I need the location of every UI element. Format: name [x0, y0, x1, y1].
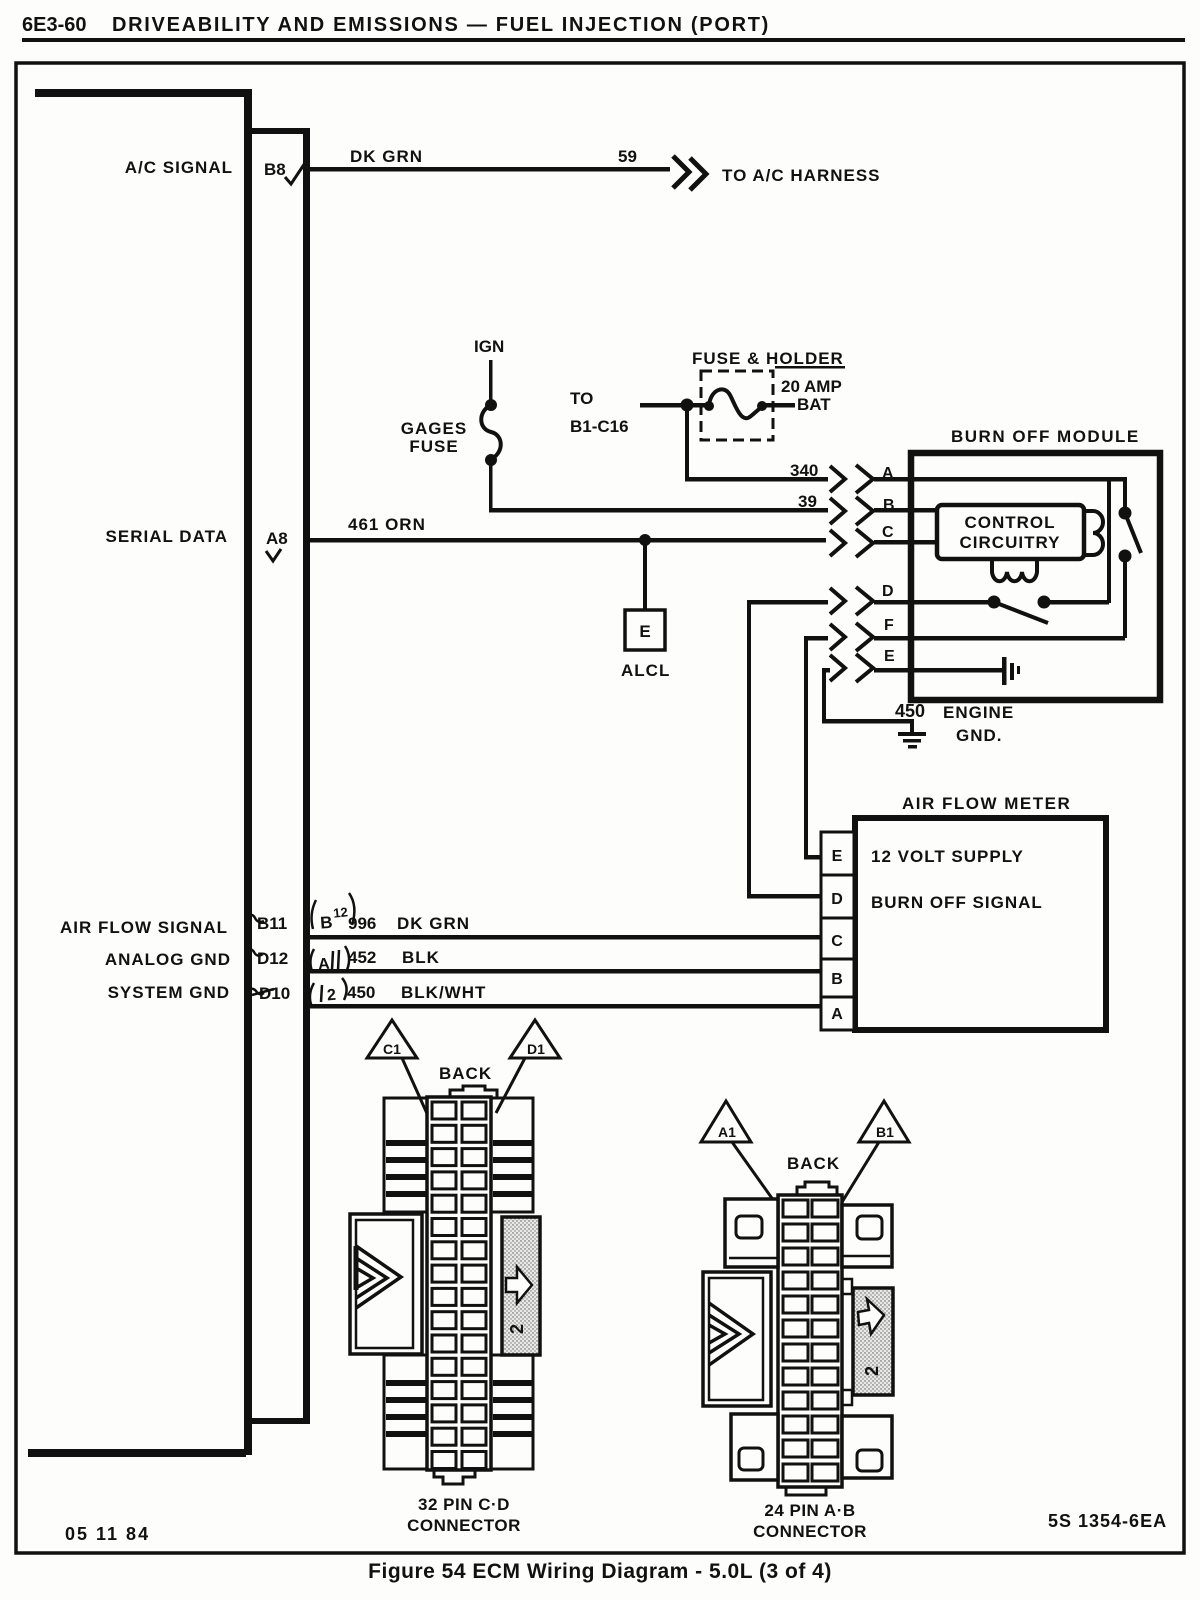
check mark at A8: [266, 549, 281, 561]
svg-text:IGN: IGN: [474, 337, 504, 356]
connector pin B chevrons: [830, 497, 873, 525]
svg-text:D: D: [882, 583, 894, 600]
label AIR FLOW METER: [902, 794, 1071, 813]
pin label F: [884, 617, 894, 634]
svg-text:C: C: [882, 524, 894, 541]
svg-text:BURN OFF SIGNAL: BURN OFF SIGNAL: [871, 893, 1043, 912]
wire label 39: [798, 492, 817, 511]
svg-text:2: 2: [327, 987, 337, 1005]
connector pin A chevrons: [830, 465, 873, 493]
burn off module box: [911, 453, 1160, 700]
svg-text:CIRCUITRY: CIRCUITRY: [960, 533, 1061, 552]
wire pin A inside module: [874, 477, 1127, 512]
svg-text:59: 59: [618, 147, 637, 166]
label A/C SIGNAL: [125, 158, 233, 177]
label ALCL: [621, 661, 670, 680]
wire junction down to pin A (ckt 340): [685, 405, 828, 482]
wire B11 air flow signal (996 DK GRN): [310, 935, 821, 940]
pin B8: [264, 160, 286, 179]
label BACK (32 pin): [439, 1064, 492, 1083]
label SERIAL DATA: [106, 527, 228, 546]
svg-text:461 ORN: 461 ORN: [348, 515, 426, 534]
leader A1 to connector: [732, 1142, 786, 1218]
wire label 450 BLK/WHT: [347, 983, 486, 1002]
wire label 452 BLK: [348, 948, 440, 967]
label BURN OFF MODULE: [951, 427, 1140, 446]
wire upper switch to pin F: [874, 556, 1127, 641]
pin label C: [882, 524, 894, 541]
svg-text:CONTROL: CONTROL: [964, 513, 1055, 532]
svg-text:D12: D12: [257, 949, 288, 968]
relay coil right of control circuitry: [1084, 511, 1103, 555]
label 20 AMP BAT: [781, 377, 842, 414]
svg-text:E: E: [832, 848, 843, 865]
32 pin connector pin cells: [432, 1102, 486, 1469]
svg-text:D1: D1: [527, 1041, 545, 1057]
relay coil below control circuitry: [992, 559, 1037, 581]
svg-text:FUSE & HOLDER: FUSE & HOLDER: [692, 349, 844, 368]
svg-text:F: F: [884, 617, 894, 634]
label BURN OFF SIGNAL: [871, 893, 1043, 912]
svg-text:BLK: BLK: [402, 948, 440, 967]
pin label D: [882, 583, 894, 600]
svg-text:32 PIN C·D: 32 PIN C·D: [418, 1495, 510, 1514]
24 pin connector top-left wing: [725, 1199, 778, 1267]
air flow meter pin E cell: [821, 832, 854, 875]
svg-text:12: 12: [333, 904, 349, 920]
svg-text:TO: TO: [570, 389, 593, 408]
svg-text:GND.: GND.: [956, 726, 1003, 745]
check squiggle at D10: [246, 989, 264, 994]
node battery feed junction: [681, 399, 694, 412]
svg-text:A: A: [831, 1006, 843, 1023]
wire pin E to engine ground: [822, 668, 914, 724]
relay switch upper: [1119, 507, 1142, 563]
svg-text:GAGES: GAGES: [401, 419, 467, 438]
svg-text:BACK: BACK: [787, 1154, 840, 1173]
24 pin connector body: [778, 1182, 842, 1495]
32 pin connector top-right wing: [491, 1098, 533, 1212]
node C1 callout triangle: [367, 1020, 417, 1058]
32 pin connector bottom-left wing: [384, 1355, 427, 1469]
svg-text:BURN OFF MODULE: BURN OFF MODULE: [951, 427, 1140, 446]
label 24 PIN A-B CONNECTOR: [753, 1501, 867, 1541]
fuse 20 AMP: [704, 389, 767, 418]
connector pin E chevrons: [830, 654, 873, 682]
wire module pin F to air flow meter pin E: [804, 636, 828, 860]
figure caption: [368, 1560, 832, 1583]
pin label E: [884, 648, 895, 665]
svg-text:B11: B11: [257, 914, 287, 933]
svg-text:CONNECTOR: CONNECTOR: [753, 1522, 867, 1541]
svg-text:DK GRN: DK GRN: [397, 914, 470, 933]
32 pin connector bottom-right wing: [491, 1355, 533, 1469]
24 pin connector bottom-right wing: [842, 1416, 892, 1478]
svg-text:B: B: [320, 913, 334, 933]
svg-text:B1-C16: B1-C16: [570, 417, 629, 436]
wire label 340: [790, 461, 818, 480]
check squiggle at D12: [245, 949, 263, 955]
wire D10 system gnd (450 BLK/WHT): [310, 1004, 821, 1009]
fuse GAGES FUSE: [481, 399, 501, 466]
wire label DK GRN: [350, 147, 423, 166]
svg-text:05 11 84: 05 11 84: [65, 1524, 150, 1544]
leader B1 to connector: [839, 1142, 879, 1207]
wire label 450: [895, 701, 925, 721]
svg-text:BLK/WHT: BLK/WHT: [401, 983, 486, 1002]
svg-text:ENGINE: ENGINE: [943, 703, 1014, 722]
air flow meter pin B cell: [821, 959, 854, 997]
connector pin C chevrons: [830, 529, 873, 557]
label ENGINE GND.: [943, 703, 1014, 745]
page header title: [22, 14, 1185, 42]
svg-text:SYSTEM GND: SYSTEM GND: [108, 983, 230, 1002]
svg-text:BACK: BACK: [439, 1064, 492, 1083]
svg-text:B8: B8: [264, 160, 286, 179]
node serial data junction: [639, 534, 651, 546]
wire pin C into control circuitry: [874, 540, 938, 545]
check mark at B8: [285, 163, 305, 184]
control circuitry box U1: [937, 505, 1084, 559]
handwritten (B12): [312, 893, 355, 933]
pin D12: [257, 949, 288, 968]
pin label A: [882, 465, 894, 482]
wire pin E to chassis ground: [874, 668, 1004, 673]
engine ground symbol: [898, 723, 926, 749]
svg-text:E: E: [639, 622, 650, 641]
fuse holder dashed box: [701, 371, 773, 440]
svg-text:B1: B1: [876, 1124, 894, 1140]
air flow meter box: [855, 818, 1106, 1030]
svg-text:2: 2: [862, 1366, 882, 1376]
ECM connector strip: [250, 128, 310, 1424]
node A1 callout triangle: [701, 1101, 751, 1142]
pin B11: [257, 914, 287, 933]
32 pin connector left latch block: [350, 1214, 422, 1354]
wire IGN to gages fuse: [489, 360, 493, 402]
connector E ALCL: [625, 610, 665, 650]
svg-text:FUSE: FUSE: [409, 437, 458, 456]
wire B8 to A/C harness (DK GRN 59): [310, 167, 670, 172]
svg-text:BAT: BAT: [797, 395, 831, 414]
svg-text:B: B: [831, 971, 843, 988]
svg-text:452: 452: [348, 948, 376, 967]
svg-text:996: 996: [348, 914, 376, 933]
label FUSE & HOLDER: [692, 349, 845, 369]
label ANALOG GND: [105, 950, 231, 969]
32 pin connector top-left wing: [384, 1098, 427, 1212]
svg-text:E: E: [884, 648, 895, 665]
svg-text:20 AMP: 20 AMP: [781, 377, 842, 396]
air flow meter pin C cell: [821, 918, 854, 959]
check squiggle at B11: [247, 915, 264, 922]
label 32 PIN C-D CONNECTOR: [407, 1495, 521, 1535]
double chevron arrow to A/C harness: [673, 156, 706, 190]
handwritten (A11): [310, 946, 349, 973]
handwritten (12): [310, 978, 347, 1007]
wire pin B into control circuitry: [874, 508, 938, 513]
pin A8: [266, 529, 288, 548]
label SYSTEM GND: [108, 983, 230, 1002]
label BACK (24 pin): [787, 1154, 840, 1173]
svg-text:C1: C1: [383, 1041, 401, 1057]
svg-text:A1: A1: [718, 1124, 736, 1140]
pin label B: [883, 497, 895, 514]
32 pin connector body: [427, 1086, 497, 1484]
wire module pin D to air flow meter pin D: [747, 600, 828, 899]
wire gages fuse to pin B (ckt 39): [489, 464, 828, 513]
24 pin connector left latch block: [703, 1272, 771, 1406]
wire label 59: [618, 147, 637, 166]
label IGN: [474, 337, 504, 356]
svg-text:6E3-60: 6E3-60: [22, 14, 87, 36]
svg-text:D: D: [831, 891, 843, 908]
svg-text:DRIVEABILITY AND EMISSIONS — F: DRIVEABILITY AND EMISSIONS — FUEL INJECT…: [112, 14, 770, 36]
leader C1 to connector: [402, 1058, 429, 1118]
svg-text:5S 1354-6EA: 5S 1354-6EA: [1048, 1511, 1167, 1531]
svg-text:340: 340: [790, 461, 818, 480]
svg-text:24 PIN A·B: 24 PIN A·B: [764, 1501, 855, 1520]
svg-text:C: C: [831, 933, 843, 950]
24 pin connector right lock block with arrow: [842, 1279, 893, 1405]
connector pin F chevrons: [830, 623, 873, 651]
svg-text:12 VOLT SUPPLY: 12 VOLT SUPPLY: [871, 847, 1024, 866]
svg-text:ANALOG GND: ANALOG GND: [105, 950, 231, 969]
wire serial data 461 ORN: [310, 538, 826, 543]
air flow meter pin A cell: [821, 997, 854, 1030]
svg-text:AIR FLOW METER: AIR FLOW METER: [902, 794, 1071, 813]
24 pin connector pin cells: [783, 1200, 838, 1481]
wire junction to ALCL: [643, 540, 647, 610]
label GAGES FUSE: [401, 419, 467, 456]
svg-text:CONNECTOR: CONNECTOR: [407, 1516, 521, 1535]
ECM body outline: [28, 89, 252, 1457]
svg-text:A/C SIGNAL: A/C SIGNAL: [125, 158, 233, 177]
svg-text:450: 450: [895, 701, 925, 721]
connector pin D chevrons: [830, 587, 873, 615]
svg-text:39: 39: [798, 492, 817, 511]
node B1 callout triangle: [859, 1101, 909, 1142]
svg-text:TO A/C HARNESS: TO A/C HARNESS: [722, 166, 881, 185]
label TO A/C HARNESS: [722, 166, 881, 185]
svg-text:ALCL: ALCL: [621, 661, 670, 680]
chassis ground inside module: [1002, 657, 1020, 685]
svg-text:SERIAL DATA: SERIAL DATA: [106, 527, 228, 546]
svg-text:DK GRN: DK GRN: [350, 147, 423, 166]
drawing number 5S 1354-6EA: [1048, 1511, 1167, 1531]
24 pin connector top-right wing: [842, 1205, 892, 1267]
air flow meter pin D cell: [821, 875, 854, 918]
label TO B1-C16: [570, 389, 629, 436]
wire battery feed to fuse holder: [640, 403, 795, 408]
svg-text:2: 2: [507, 1324, 527, 1334]
date stamp 05 11 84: [65, 1524, 150, 1544]
leader D1 to connector: [496, 1058, 525, 1113]
relay switch lower in pin D line: [874, 479, 1111, 623]
wire D12 analog gnd (452 BLK): [310, 969, 821, 974]
svg-text:A8: A8: [266, 529, 288, 548]
wire label 461 ORN: [348, 515, 426, 534]
label AIR FLOW SIGNAL: [60, 918, 228, 937]
wire label 996 DK GRN: [348, 914, 470, 933]
svg-text:AIR FLOW SIGNAL: AIR FLOW SIGNAL: [60, 918, 228, 937]
svg-text:450: 450: [347, 983, 375, 1002]
node D1 callout triangle: [510, 1020, 560, 1058]
svg-text:Figure 54 ECM Wiring Diagram -: Figure 54 ECM Wiring Diagram - 5.0L (3 o…: [368, 1560, 832, 1583]
24 pin connector bottom-left wing: [731, 1414, 778, 1480]
32 pin connector right lock block with arrow: [502, 1217, 540, 1355]
pin D10: [252, 984, 290, 1003]
label 12 VOLT SUPPLY: [871, 847, 1024, 866]
